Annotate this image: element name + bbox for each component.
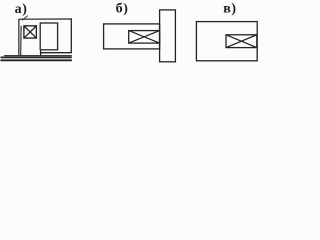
base hatch band 1 [1, 56, 72, 58]
base top line (fig a) [4, 55, 72, 57]
coil X diagonals a [24, 26, 37, 38]
coil X diagonals v [226, 35, 257, 48]
coil X diagonals b [129, 31, 160, 43]
hinge tick (fig a) [22, 16, 28, 21]
svg-text:в): в) [223, 1, 236, 16]
plain core box (fig a) [40, 23, 57, 50]
svg-text:б): б) [116, 1, 129, 16]
shell housing box (fig v) [196, 22, 257, 61]
right vertical limb (fig a) [70, 18, 72, 53]
coil winding box v [226, 35, 257, 48]
bottom yoke line (fig a) [40, 52, 72, 54]
armature top line (fig a) [19, 18, 72, 20]
svg-text:а): а) [15, 2, 28, 17]
core limb inner line (fig a) [20, 26, 22, 55]
coil winding box a [24, 26, 37, 38]
armature plate bar (fig b) [160, 10, 176, 62]
left core line (fig a) [18, 19, 20, 55]
support tick under box (fig a) [40, 50, 42, 56]
coil winding box b [129, 31, 160, 43]
core rod box (fig b) [104, 24, 160, 49]
base hatch band 2 [1, 59, 72, 61]
